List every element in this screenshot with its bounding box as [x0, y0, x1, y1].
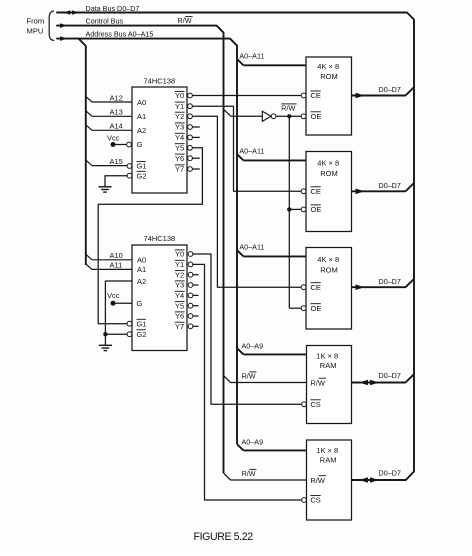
svg-text:A14: A14	[110, 122, 123, 131]
label U2 pin Y6	[175, 312, 185, 321]
wire ROM2 D0-D7 to data bus	[352, 183, 415, 191]
label U2 pin Y2	[175, 270, 185, 279]
wire U1 Y1 to ROM2 CE	[192, 106, 301, 191]
label U1 pin Y6	[175, 154, 185, 163]
wire control bus vertical	[223, 35, 225, 473]
wire U2 G2 to ground junction	[105, 333, 127, 335]
label A0-A11 ROM1	[239, 51, 264, 60]
label U2 pin Y7	[175, 322, 185, 331]
node U1 Y5 bubble	[188, 145, 193, 150]
node U1 G1 bubble	[127, 164, 132, 169]
wire A0-A11 tap to ROM1	[237, 59, 306, 65]
svg-text:Y3: Y3	[175, 123, 184, 132]
label U1 pin Y5	[175, 144, 185, 153]
node U1 Y0 bubble	[188, 93, 193, 98]
decoder U1 74HC138 box	[132, 87, 187, 193]
node U1 G bubble	[127, 142, 132, 147]
wire A14 tap	[86, 125, 132, 131]
node U2 Y1 bubble	[188, 262, 193, 267]
svg-text:A15: A15	[110, 157, 123, 166]
memory ROM3 box	[306, 248, 352, 330]
node address bus arrow	[60, 36, 67, 41]
memory RAM1 box	[307, 346, 352, 424]
wire A11 tap	[86, 264, 132, 269]
node ROM1 data arrow	[356, 93, 365, 99]
svg-text:ROM: ROM	[320, 266, 338, 275]
wire U2 Y1 to RAM2 CS	[193, 264, 302, 500]
wire U1 Y0 to ROM1 CE	[192, 95, 301, 97]
svg-text:OE: OE	[311, 304, 322, 313]
svg-text:Y2: Y2	[175, 112, 184, 121]
svg-text:A10: A10	[110, 251, 123, 260]
wire A12 tap	[86, 97, 132, 103]
label A0-A11 ROM2	[239, 146, 264, 155]
wire junction to ROM2 OE	[289, 208, 301, 210]
label U1 pin G	[137, 140, 143, 149]
svg-text:R/W: R/W	[242, 469, 256, 478]
label A15	[110, 157, 123, 166]
svg-text:CE: CE	[311, 91, 321, 100]
decoder U2 74HC138 box	[132, 245, 187, 351]
label D0-D7 RAM2	[379, 469, 401, 478]
wire ground junction down	[104, 334, 106, 345]
svg-text:OE: OE	[311, 112, 322, 121]
wire U1 Y4 stub	[192, 136, 199, 138]
svg-text:A1: A1	[137, 265, 146, 274]
svg-text:Control Bus: Control Bus	[86, 16, 124, 25]
svg-text:A12: A12	[110, 93, 123, 102]
svg-text:Y6: Y6	[175, 154, 184, 163]
label U2 pin Y4	[175, 291, 185, 300]
wire U2 Y6 stub	[193, 315, 199, 317]
svg-text:A2: A2	[137, 126, 146, 135]
svg-text:74HC138: 74HC138	[144, 76, 176, 85]
label ROM1 4K x 8 ROM	[317, 62, 339, 81]
svg-text:1K × 8: 1K × 8	[316, 446, 338, 455]
svg-text:A0: A0	[137, 256, 146, 265]
svg-text:G1: G1	[137, 162, 147, 171]
label 74HC138 U1	[144, 76, 176, 85]
svg-text:Y6: Y6	[175, 312, 184, 321]
wire A0-A9 tap to RAM1	[237, 348, 307, 354]
label R/W tap RAM2	[242, 469, 257, 478]
node U2 Y7 bubble	[188, 324, 193, 329]
label inverted R/W	[281, 103, 296, 112]
node U2 Y6 bubble	[188, 314, 193, 319]
svg-text:Y7: Y7	[175, 165, 184, 174]
svg-text:A0–A11: A0–A11	[239, 146, 264, 155]
svg-text:G2: G2	[137, 330, 147, 339]
svg-text:R/W: R/W	[281, 103, 295, 112]
wire inverter output to ROM1 OE	[276, 115, 301, 117]
label ROM2 pin CE	[311, 187, 321, 196]
svg-text:RAM: RAM	[320, 456, 337, 465]
label R/W tap RAM1	[242, 371, 257, 380]
node ROM1 OE bubble	[301, 114, 306, 119]
label A0-A11 ROM3	[239, 242, 264, 251]
svg-text:Y4: Y4	[175, 133, 184, 142]
inverter U3	[262, 111, 271, 121]
svg-text:A1: A1	[137, 112, 146, 121]
label U2 pin G1	[137, 319, 147, 328]
wire A15 tap	[86, 160, 127, 166]
svg-text:4K × 8: 4K × 8	[317, 62, 339, 71]
node ROM3 CE bubble	[301, 285, 306, 290]
wire ROM1 D0-D7 to data bus	[352, 87, 415, 95]
svg-text:A0–A11: A0–A11	[239, 242, 264, 251]
node inverter output bubble	[271, 114, 276, 119]
memory ROM2 box	[306, 152, 352, 232]
node ROM1 CE bubble	[301, 93, 306, 98]
wire A0-A11 tap to ROM3	[237, 250, 306, 256]
node ROM3 data arrow	[356, 284, 365, 290]
wire U2 Y7 stub	[193, 325, 199, 327]
svg-text:R/W: R/W	[310, 476, 326, 485]
label D0-D7 ROM2	[379, 181, 401, 190]
svg-text:MPU: MPU	[27, 26, 44, 35]
svg-text:Y2: Y2	[175, 270, 184, 279]
node RAM2 CS bubble	[302, 498, 307, 503]
label A13	[110, 108, 123, 117]
svg-text:Vcc: Vcc	[107, 133, 120, 142]
label Data Bus D0-D7	[86, 4, 140, 13]
svg-text:R/W: R/W	[242, 371, 256, 380]
label A12	[110, 93, 123, 102]
node RAM1 CS bubble	[302, 402, 307, 407]
node U1 Y4 bubble	[188, 135, 193, 140]
node U1 Y2 bubble	[188, 114, 193, 119]
memory ROM1 box	[306, 57, 352, 135]
label U1 pin G1	[137, 162, 147, 171]
svg-text:From: From	[27, 17, 45, 26]
label D0-D7 RAM1	[379, 371, 401, 380]
node ROM2 CE bubble	[301, 189, 306, 194]
wire RAM1 D0-D7 to data bus	[352, 374, 415, 382]
wire A10 tap	[86, 254, 132, 259]
svg-text:FIGURE 5.22: FIGURE 5.22	[194, 531, 254, 543]
label U2 pin G	[137, 299, 143, 308]
svg-text:Vcc: Vcc	[107, 291, 120, 300]
label A0-A9 RAM1	[242, 341, 264, 350]
node U2 G2 bubble	[127, 332, 132, 337]
svg-text:CE: CE	[311, 187, 321, 196]
svg-text:Y5: Y5	[175, 144, 184, 153]
svg-text:G: G	[137, 299, 143, 308]
node U1 Y7 bubble	[188, 167, 193, 172]
svg-text:D0–D7: D0–D7	[379, 371, 401, 380]
label A0-A9 RAM2	[242, 437, 264, 446]
wire U1 Y2 to ROM3 CE	[192, 116, 301, 287]
wire U1 Y5 to U2 G1	[98, 148, 202, 324]
svg-text:R/W: R/W	[310, 378, 326, 387]
svg-text:RAM: RAM	[320, 361, 337, 370]
label A10	[110, 251, 123, 260]
svg-text:CS: CS	[310, 496, 320, 505]
wire ROM3 D0-D7 to data bus	[352, 279, 415, 287]
svg-text:A11: A11	[110, 261, 123, 270]
label D0-D7 ROM1	[379, 85, 401, 94]
label U1 pin Y7	[175, 165, 185, 174]
wire U1 Y6 stub	[192, 157, 199, 159]
memory RAM2 box	[307, 440, 352, 520]
label U1 pin Y3	[175, 123, 185, 132]
label ROM3 pin OE	[311, 304, 322, 313]
label RAM2 pin R/W	[310, 476, 326, 485]
svg-text:R/W: R/W	[178, 16, 192, 25]
wire RAM2 D0-D7 to data bus end	[352, 479, 404, 481]
svg-text:CE: CE	[311, 283, 321, 292]
svg-text:CS: CS	[310, 400, 320, 409]
label U1 input pins A0 A1 A2	[137, 98, 146, 135]
svg-text:D0–D7: D0–D7	[379, 181, 401, 190]
svg-text:A0–A9: A0–A9	[242, 341, 264, 350]
node U1 G2 bubble	[127, 173, 132, 178]
label U2 input pins A0 A1 A2	[137, 256, 146, 286]
wire R/W tap to inverter	[224, 109, 263, 116]
node U2 Y2 bubble	[188, 272, 193, 277]
svg-text:Y0: Y0	[175, 250, 184, 259]
svg-text:1K × 8: 1K × 8	[316, 351, 338, 360]
label ROM3 pin CE	[311, 283, 321, 292]
label ROM2 pin OE	[311, 205, 322, 214]
svg-text:74HC138: 74HC138	[144, 234, 176, 243]
label ROM3 4K x 8 ROM	[317, 255, 339, 275]
label 74HC138 U2	[144, 234, 176, 243]
svg-text:ROM: ROM	[320, 169, 338, 178]
label U1 pin Y4	[175, 133, 185, 142]
node ROM2 OE bubble	[301, 207, 306, 212]
svg-text:A0–A9: A0–A9	[242, 437, 264, 446]
label RAM1 1K x 8 RAM	[316, 351, 338, 370]
power Vcc U1	[107, 133, 127, 147]
svg-text:Y5: Y5	[175, 301, 184, 310]
wire U2 Y2 stub	[193, 274, 199, 276]
svg-text:ROM: ROM	[320, 72, 338, 81]
label U2 pin G2	[137, 330, 147, 339]
svg-text:4K × 8: 4K × 8	[317, 159, 339, 168]
node inverted R/W junction ROM1	[287, 114, 291, 118]
wire address bus vertical right	[236, 48, 238, 444]
svg-text:Y1: Y1	[175, 102, 184, 111]
wire address bus horizontal	[57, 39, 237, 50]
node RAM1 data arrows	[359, 380, 379, 386]
label FIGURE 5.22 caption	[194, 531, 254, 543]
label ROM2 4K x 8 ROM	[317, 159, 339, 179]
label From MPU	[27, 17, 45, 36]
node data bus bidirectional arrows	[64, 10, 79, 15]
svg-text:Data Bus D0–D7: Data Bus D0–D7	[86, 4, 140, 13]
wire data bus horizontal	[57, 13, 414, 24]
node U2 ground junction dot	[103, 332, 107, 336]
label Control Bus	[86, 16, 124, 25]
label RAM1 pin CS	[310, 400, 320, 409]
node U2 Y4 bubble	[188, 293, 193, 298]
node ROM2 data arrow	[356, 189, 365, 195]
svg-text:A0: A0	[137, 98, 146, 107]
svg-text:4K × 8: 4K × 8	[317, 255, 339, 264]
node U1 Y1 bubble	[188, 104, 193, 109]
wire A0-A11 tap to ROM2	[237, 154, 306, 160]
node control bus arrow	[60, 23, 67, 28]
node U1 Y6 bubble	[188, 156, 193, 161]
svg-text:D0–D7: D0–D7	[379, 277, 401, 286]
wire U1 G2 to ground	[105, 176, 127, 187]
svg-text:Y4: Y4	[175, 291, 184, 300]
node U2 Y3 bubble	[188, 283, 193, 288]
label U1 pin Y2	[175, 112, 185, 121]
svg-text:G2: G2	[137, 171, 147, 180]
svg-text:OE: OE	[311, 205, 322, 214]
svg-text:Y1: Y1	[175, 260, 184, 269]
power Vcc U2	[107, 291, 132, 306]
label RAM2 1K x 8 RAM	[316, 446, 338, 464]
svg-text:A2: A2	[137, 277, 146, 286]
svg-text:A13: A13	[110, 108, 123, 117]
node MPU brace	[49, 11, 54, 41]
label U2 pin Y5	[175, 301, 185, 310]
wire U2 Y0 to RAM1 CS	[193, 254, 302, 404]
svg-text:G1: G1	[137, 319, 147, 328]
node U1 Y3 bubble	[188, 125, 193, 130]
wire A13 tap	[86, 111, 132, 117]
wire control bus horizontal	[57, 26, 224, 36]
wire R/W tap to RAM2	[224, 473, 307, 480]
svg-text:A0–A11: A0–A11	[239, 51, 264, 60]
wire U2 A2 to ground	[105, 281, 132, 334]
wire U2 Y5 stub	[193, 305, 199, 307]
ground U2	[99, 345, 112, 350]
label ROM1 pin CE	[311, 91, 321, 100]
label A14	[110, 122, 123, 131]
svg-text:G: G	[137, 140, 143, 149]
ground U1	[98, 187, 111, 192]
label RAM1 pin R/W	[310, 378, 326, 387]
label R/W on control bus	[178, 16, 193, 25]
label RAM2 pin CS	[310, 496, 320, 505]
wire U1 Y3 stub	[192, 126, 199, 128]
label U2 pin Y0	[175, 250, 185, 259]
svg-text:D0–D7: D0–D7	[379, 85, 401, 94]
label Address Bus A0-A15	[86, 29, 154, 38]
node U2 Y5 bubble	[188, 303, 193, 308]
wire address bus branch left vertical	[79, 39, 86, 265]
wire U2 Y3 stub	[193, 284, 199, 286]
wire R/W tap to RAM1	[224, 376, 307, 383]
label U1 pin Y0	[175, 91, 185, 100]
node inverted R/W junction ROM2	[287, 207, 291, 211]
wire A0-A9 tap to RAM2	[237, 444, 307, 450]
label ROM1 pin OE	[311, 112, 322, 121]
svg-text:D0–D7: D0–D7	[379, 469, 401, 478]
node RAM2 data arrows	[359, 477, 379, 483]
wire to ROM3 OE	[289, 307, 301, 309]
label U1 pin Y1	[175, 102, 185, 111]
node ROM3 OE bubble	[301, 306, 306, 311]
svg-text:Y7: Y7	[175, 322, 184, 331]
label U1 pin G2	[137, 171, 147, 180]
svg-text:Y3: Y3	[175, 281, 184, 290]
label D0-D7 ROM3	[379, 277, 401, 286]
wire inverted R/W vertical	[288, 116, 290, 308]
label A11	[110, 261, 123, 270]
label U2 pin Y3	[175, 281, 185, 290]
wire U1 Y7 stub	[192, 168, 199, 170]
wire U2 Y4 stub	[193, 294, 199, 296]
node U2 G1 bubble	[127, 321, 132, 326]
svg-text:Y0: Y0	[175, 91, 184, 100]
wire data bus vertical	[402, 23, 414, 481]
svg-text:Address Bus A0–A15: Address Bus A0–A15	[86, 29, 154, 38]
node U2 Y0 bubble	[188, 252, 193, 257]
label U2 pin Y1	[175, 260, 185, 269]
